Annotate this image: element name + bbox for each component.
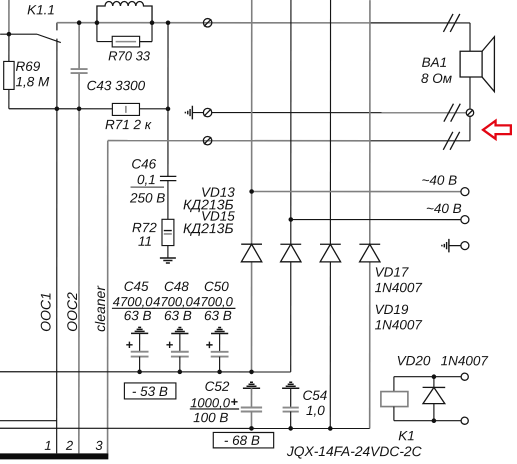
svg-text:VD20: VD20 — [397, 353, 431, 368]
wire: C46 to R72 — [167, 181, 169, 220]
svg-text:C54: C54 — [302, 388, 327, 403]
svg-text:1: 1 — [44, 438, 51, 453]
terminal circle on row A — [203, 19, 211, 27]
wire: row D from ground to terminal — [192, 112, 203, 114]
capacitor C52 branch gray — [231, 382, 262, 428]
board edge thick bar — [0, 453, 108, 459]
wire: stub from left edge to node at R69 top — [0, 33, 37, 35]
node: C46 column top junction — [166, 20, 171, 25]
wire: row E gray part from cleaner corner — [108, 140, 370, 142]
svg-text:63 В: 63 В — [124, 308, 152, 323]
svg-text:- 53 В: - 53 В — [132, 384, 168, 399]
rectifier column VD13 gray wire — [251, 0, 253, 244]
svg-text:K1.1: K1.1 — [27, 2, 55, 17]
node: row K VD17 junction — [328, 426, 333, 431]
capacitor C54 branch — [282, 382, 299, 428]
svg-text:C48: C48 — [164, 279, 189, 294]
wire: speaker terminal down to row E corner — [469, 116, 471, 140]
terminal circle on row D — [203, 108, 211, 116]
diode VD13 — [241, 244, 262, 262]
svg-text:3: 3 — [95, 438, 103, 453]
svg-text:4700,0: 4700,0 — [153, 294, 194, 309]
wire: row F ~40V upper — [252, 190, 461, 192]
wire: cleaner column — [107, 141, 109, 454]
speaker BA1 leads — [469, 23, 471, 51]
wire: row C from R69 to R71 — [9, 108, 112, 110]
wire: row J stub to OOC1 — [0, 420, 57, 422]
svg-text:1,0: 1,0 — [306, 403, 325, 418]
svg-text:JQX-14FA-24VDC-2C: JQX-14FA-24VDC-2C — [286, 444, 423, 459]
node: C43 top junction — [77, 20, 82, 25]
relay contact K1.1 fixed terminal segments — [56, 23, 58, 31]
terminal circle row G — [461, 216, 469, 224]
wire: R72 bottom lead — [167, 246, 169, 258]
capacitor C43 / OOC2 column gray wire — [78, 23, 80, 69]
node: row G junction — [289, 217, 294, 222]
relay coil K1 — [381, 377, 461, 421]
resistor R71 body with power mark — [112, 103, 168, 115]
relay contact K1.1 blade — [37, 34, 61, 42]
node: junction R69 top / switch input — [7, 32, 12, 37]
node: row C switch column junction — [55, 106, 60, 111]
svg-text:C50: C50 — [204, 279, 229, 294]
svg-text:0,1: 0,1 — [137, 172, 156, 187]
svg-text:~40 В: ~40 В — [422, 173, 458, 188]
svg-text:C46: C46 — [131, 157, 156, 172]
capacitor C46 plates — [160, 175, 176, 177]
svg-text:cleaner: cleaner — [92, 285, 108, 332]
terminal circle row F — [461, 188, 469, 196]
capacitor C50 branch — [206, 327, 228, 371]
red arrow marker — [483, 121, 511, 139]
svg-text:4700,0: 4700,0 — [193, 294, 234, 309]
svg-text:K1: K1 — [398, 428, 415, 443]
svg-text:C52: C52 — [205, 379, 230, 394]
terminal circle on row E — [203, 136, 211, 144]
node: row I column junction — [249, 370, 254, 375]
rectifier column VD19 gray wire — [369, 0, 371, 244]
svg-text:R70 33: R70 33 — [108, 48, 151, 63]
svg-text:2: 2 — [65, 438, 74, 453]
terminal circle relay top — [461, 373, 468, 380]
wire: row D to speaker return — [212, 112, 466, 114]
wire: top bus row A gray part — [57, 22, 370, 24]
C46 column wire from top bus — [167, 23, 169, 177]
svg-text:ООС2: ООС2 — [64, 292, 80, 332]
resistor R70 body with power mark — [97, 23, 152, 47]
wire: top bus row A black part to speaker corner — [370, 22, 470, 24]
wire: right ground to terminal — [449, 245, 461, 247]
svg-text:C43 3300: C43 3300 — [87, 78, 146, 93]
resistor R72 body with power marks — [162, 219, 174, 245]
node: inductor right junction — [150, 20, 155, 25]
rectifier column VD17 black wire — [329, 0, 331, 244]
svg-text:1000,0: 1000,0 — [190, 395, 231, 410]
capacitor C43 plates — [71, 68, 88, 70]
node: C43 bottom junction — [77, 106, 82, 111]
capacitor C45 branch — [126, 327, 148, 371]
ground symbol on row D left — [185, 106, 192, 120]
node: row F junction — [249, 189, 254, 194]
svg-text:1N4007: 1N4007 — [441, 353, 489, 368]
diode VD20 across relay coil — [423, 377, 446, 421]
svg-text:250 В: 250 В — [129, 191, 165, 206]
ground symbol right side — [442, 239, 449, 253]
wire: row G ~40V lower — [291, 219, 461, 221]
svg-text:8 Ом: 8 Ом — [421, 71, 452, 86]
svg-text:- 68 В: - 68 В — [224, 433, 260, 448]
node: C48 bottom junction — [178, 370, 183, 375]
cable break on row D — [444, 104, 460, 122]
resistor R69 body — [4, 61, 14, 89]
inductor L1 winding — [97, 2, 152, 23]
svg-text:63 В: 63 В — [164, 308, 192, 323]
diode VD15 — [280, 244, 301, 262]
svg-text:1N4007: 1N4007 — [375, 280, 423, 295]
speaker terminal circle with slash — [466, 109, 473, 116]
label box -53 В — [124, 383, 176, 399]
terminal circle relay bottom — [461, 417, 468, 424]
node: VD20 top junction — [432, 374, 437, 379]
svg-text:R71 2 к: R71 2 к — [105, 117, 152, 132]
svg-text:100 В: 100 В — [193, 410, 228, 425]
diode VD19 — [359, 244, 380, 262]
capacitor C48 branch — [166, 327, 188, 371]
ground symbol below R72 — [160, 258, 176, 263]
rectifier column VD15 black wire — [290, 0, 292, 244]
cable break on row A — [443, 14, 459, 32]
node: inductor left junction — [95, 20, 100, 25]
wire: R69 bottom lead — [8, 89, 10, 108]
svg-text:C45: C45 — [124, 279, 149, 294]
cable break on row E — [443, 132, 459, 150]
svg-text:1,8 М: 1,8 М — [15, 74, 50, 89]
node: R71 right junction on C46 column — [166, 107, 171, 112]
label box -68 В — [213, 432, 273, 447]
svg-text:VD19: VD19 — [375, 302, 409, 317]
svg-text:BA1: BA1 — [422, 55, 448, 70]
wire: row E black part to speaker corner — [370, 140, 470, 142]
svg-text:VD17: VD17 — [375, 265, 409, 280]
svg-text:~40 В: ~40 В — [426, 201, 462, 216]
node: C52 bottom junction — [249, 426, 254, 431]
diode VD17 — [320, 244, 341, 262]
svg-text:4700,0: 4700,0 — [113, 294, 154, 309]
node: C54 bottom junction — [288, 426, 293, 431]
wire: R69 top lead — [8, 34, 10, 61]
node: VD20 bottom junction — [432, 418, 437, 423]
wire: row K -68V rail — [0, 427, 370, 429]
svg-text:ООС1: ООС1 — [37, 292, 53, 332]
wire: left feeder vertical from top edge — [8, 0, 10, 34]
node: C45 bottom junction — [137, 370, 142, 375]
node: C50 bottom junction — [217, 370, 222, 375]
svg-text:11: 11 — [138, 234, 152, 249]
terminal circle right ground — [461, 242, 469, 250]
speaker BA1 body — [460, 51, 482, 77]
wire: row I -53V rail — [0, 371, 291, 373]
svg-text:63 В: 63 В — [204, 308, 232, 323]
svg-text:1N4007: 1N4007 — [375, 317, 423, 332]
svg-text:КД213Б: КД213Б — [183, 220, 234, 236]
svg-text:R69: R69 — [15, 59, 40, 74]
